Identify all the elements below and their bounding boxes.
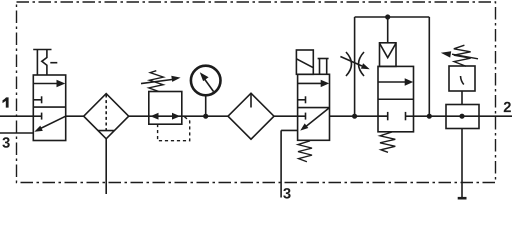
valve V4 return spring bbox=[380, 132, 395, 152]
valve V3 manual override bbox=[318, 59, 329, 75]
wire: drain below block bbox=[461, 129, 463, 199]
regulator R1 adjustable spring bbox=[141, 71, 181, 92]
wire: V1 outlet to filter bbox=[66, 115, 84, 117]
junction: gauge tap bbox=[203, 114, 208, 119]
valve V3 return spring bbox=[298, 141, 312, 162]
regulator R1 pilot feedback dashed line bbox=[158, 117, 190, 141]
valve V3 flow arrow (top position) bbox=[298, 80, 330, 87]
valve V3 exhaust diagonal arrow bbox=[300, 108, 329, 131]
valve V3 body (3/2 solenoid valve) bbox=[298, 74, 330, 140]
filter F1 with water separator (diamond) bbox=[84, 94, 129, 139]
valve V1 blocked port T (top position) bbox=[33, 96, 41, 103]
valve V1 body (3/2 hand shut-off valve) bbox=[33, 75, 65, 141]
wire: regulator to lubricator (with gauge tap) bbox=[182, 115, 228, 117]
junction: bypass branch bbox=[352, 114, 357, 119]
junction: pressure switch tap bbox=[459, 114, 464, 119]
valve V3 blocked port T (top position) bbox=[298, 96, 306, 103]
valve V4 pilot head (triangle) bbox=[380, 43, 397, 67]
filter F1 condensate drain line bbox=[105, 139, 107, 194]
wire: bypass riser (left) bbox=[354, 17, 356, 116]
valve V4 flow arrow (top position) bbox=[378, 78, 413, 85]
wire: V3 outlet to valve V4 bbox=[330, 115, 388, 117]
wire: bypass riser (right) bbox=[428, 17, 430, 116]
valve V4 body (2/2 soft-start) bbox=[378, 66, 414, 131]
wire: V3 exhaust to port 3 (bottom) bbox=[281, 130, 298, 197]
wire: gauge stem bbox=[205, 95, 207, 116]
wire: port 3 exhaust line bbox=[0, 132, 33, 134]
valve V1 exhaust diagonal arrow (bottom position) bbox=[34, 116, 65, 132]
pressure switch PS1 adjustable spring bbox=[441, 45, 478, 66]
wire: port 1 supply line bbox=[0, 115, 33, 117]
junction: bypass rejoin bbox=[427, 114, 432, 119]
pressure switch PS1 box bbox=[449, 66, 475, 91]
port label 2 (right) bbox=[504, 102, 511, 112]
pressure gauge G1 bbox=[191, 66, 221, 96]
wire: filter to regulator bbox=[129, 115, 149, 117]
valve V1 manual detent actuator bbox=[33, 50, 57, 76]
port label 1 bbox=[3, 97, 9, 107]
plugged port T-bar bbox=[458, 197, 467, 200]
wire: bypass top line bbox=[355, 16, 430, 18]
valve V4 blocked port T (left) bbox=[378, 112, 388, 120]
valve V1 flow arrow (top position) bbox=[33, 80, 65, 87]
port label 3 (bottom exhaust) bbox=[283, 188, 290, 199]
valve V3 solenoid coil bbox=[296, 50, 313, 74]
distributor block B1 bbox=[446, 105, 479, 129]
adjustable throttle valve FR1 bbox=[340, 52, 369, 76]
junction: pilot tap on top line bbox=[385, 14, 390, 19]
valve V1 blocked port T (port 1, bottom position) bbox=[33, 113, 41, 120]
wire: lubricator to valve V3 port 1 bbox=[274, 115, 306, 117]
wire: V4 outlet bbox=[414, 115, 512, 117]
enclosure dash-dot border bbox=[17, 2, 496, 183]
pressure regulator R1 body bbox=[149, 92, 182, 125]
wire: pilot stem bbox=[387, 17, 389, 43]
lubricator L1 (diamond with oil drip) bbox=[228, 93, 274, 139]
port label 3 (left) bbox=[2, 137, 9, 148]
wire: switch stem bbox=[461, 91, 463, 105]
valve V3 blocked port T (port 1) bbox=[305, 113, 307, 120]
valve V4 blocked port T (right) bbox=[406, 112, 414, 120]
